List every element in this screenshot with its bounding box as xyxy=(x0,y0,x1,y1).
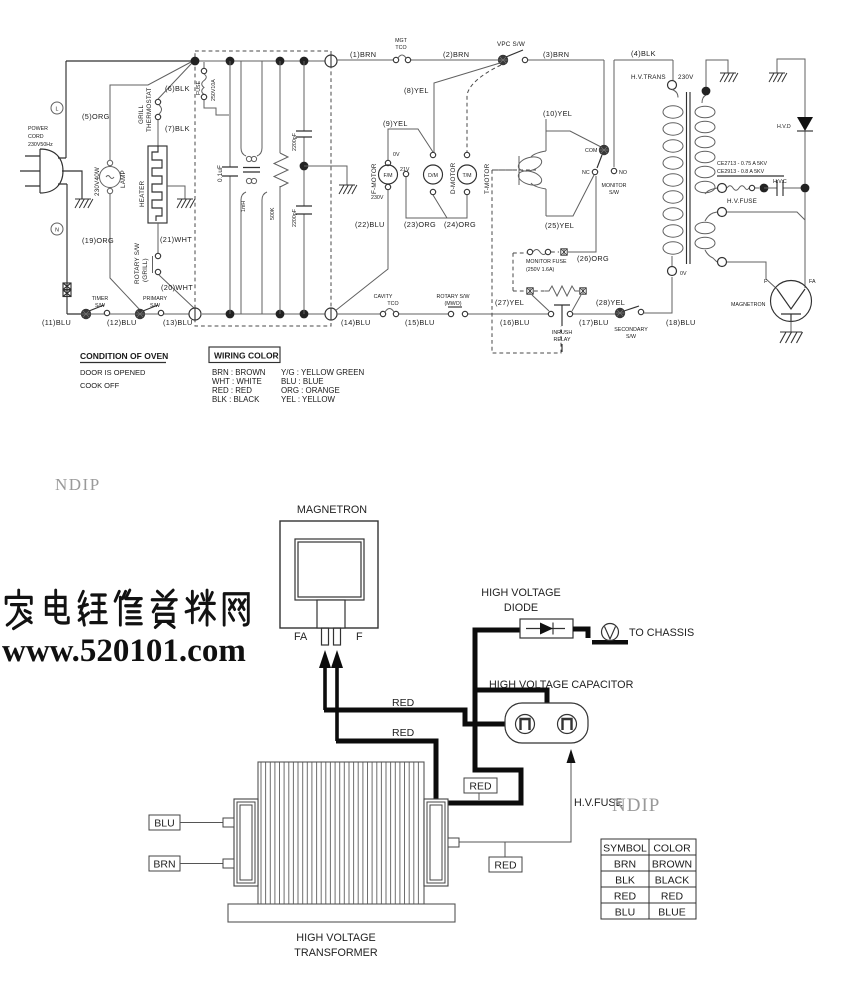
svg-text:RED: RED xyxy=(469,781,492,793)
svg-text:D/M: D/M xyxy=(428,173,438,179)
svg-text:D-MOTOR: D-MOTOR xyxy=(450,162,457,194)
svg-text:ORG : ORANGE: ORG : ORANGE xyxy=(281,386,340,395)
svg-text:LAMP: LAMP xyxy=(120,170,127,188)
svg-text:1mH: 1mH xyxy=(241,201,247,212)
svg-text:S/W: S/W xyxy=(609,190,619,196)
svg-text:(GRILL): (GRILL) xyxy=(142,258,149,282)
svg-text:ROTARY S/W: ROTARY S/W xyxy=(134,243,141,284)
svg-text:230V: 230V xyxy=(678,74,694,81)
svg-text:F/M: F/M xyxy=(383,173,392,179)
svg-text:230V40W: 230V40W xyxy=(94,167,101,196)
svg-text:TCO: TCO xyxy=(395,45,406,51)
svg-text:NC: NC xyxy=(582,170,590,176)
svg-text:MAGNETRON: MAGNETRON xyxy=(297,504,367,516)
svg-text:(28)YEL: (28)YEL xyxy=(596,298,625,307)
svg-text:H.V.TRANS: H.V.TRANS xyxy=(631,74,666,81)
svg-text:BLU: BLU xyxy=(154,818,174,830)
svg-text:TIMER: TIMER xyxy=(92,296,109,302)
svg-text:2200pF: 2200pF xyxy=(292,208,298,227)
svg-text:YEL : YELLOW: YEL : YELLOW xyxy=(281,395,335,404)
svg-text:MAGNETRON: MAGNETRON xyxy=(731,302,766,308)
svg-text:F-MOTOR: F-MOTOR xyxy=(371,163,378,194)
svg-text:THERMOSTAT: THERMOSTAT xyxy=(146,88,153,132)
svg-text:(27)YEL: (27)YEL xyxy=(495,298,524,307)
svg-text:N: N xyxy=(55,228,59,234)
svg-text:H.V.D: H.V.D xyxy=(777,124,791,130)
svg-text:Y/G : YELLOW GREEN: Y/G : YELLOW GREEN xyxy=(281,368,364,377)
svg-text:(17)BLU: (17)BLU xyxy=(579,318,609,327)
svg-text:INRUSH: INRUSH xyxy=(552,330,572,336)
svg-text:SYMBOL: SYMBOL xyxy=(603,843,647,855)
svg-text:FA: FA xyxy=(294,631,308,643)
svg-text:BRN: BRN xyxy=(153,859,175,871)
svg-text:230V50Hz: 230V50Hz xyxy=(28,142,53,148)
svg-text:(21)WHT: (21)WHT xyxy=(160,235,192,244)
svg-text:RED: RED xyxy=(392,727,415,739)
svg-text:(16)BLU: (16)BLU xyxy=(500,318,530,327)
svg-text:L: L xyxy=(56,107,59,113)
svg-text:NDIP: NDIP xyxy=(55,475,101,494)
svg-text:GRILL: GRILL xyxy=(138,105,145,124)
svg-text:0V: 0V xyxy=(393,152,400,158)
svg-text:BLACK: BLACK xyxy=(655,875,689,887)
svg-text:(2)BRN: (2)BRN xyxy=(443,50,469,59)
svg-text:(20)WHT: (20)WHT xyxy=(161,283,193,292)
svg-text:WIRING COLOR: WIRING COLOR xyxy=(214,351,279,361)
svg-text:DIODE: DIODE xyxy=(504,602,538,614)
svg-text:RED: RED xyxy=(494,860,517,872)
svg-text:NO: NO xyxy=(619,170,627,176)
svg-text:250V10A: 250V10A xyxy=(211,79,217,101)
svg-text:FA: FA xyxy=(809,279,816,285)
svg-text:0.1uF: 0.1uF xyxy=(217,165,224,182)
svg-text:CORD: CORD xyxy=(28,134,44,140)
svg-text:WHT : WHITE: WHT : WHITE xyxy=(212,377,262,386)
svg-text:MONITOR FUSE: MONITOR FUSE xyxy=(526,259,567,265)
svg-text:RED: RED xyxy=(661,891,684,903)
svg-text:BROWN: BROWN xyxy=(652,859,692,871)
svg-text:TRANSFORMER: TRANSFORMER xyxy=(294,947,378,959)
svg-text:S/W: S/W xyxy=(95,303,105,309)
svg-text:COLOR: COLOR xyxy=(653,843,691,855)
svg-text:MGT: MGT xyxy=(395,38,408,44)
svg-text:(14)BLU: (14)BLU xyxy=(341,318,371,327)
svg-text:0V: 0V xyxy=(680,271,687,277)
svg-text:DOOR IS OPENED: DOOR IS OPENED xyxy=(80,368,146,377)
svg-text:BLUE: BLUE xyxy=(658,907,685,919)
svg-text:RED: RED xyxy=(392,697,415,709)
svg-text:BLU: BLU xyxy=(615,907,635,919)
svg-text:COOK OFF: COOK OFF xyxy=(80,381,120,390)
svg-text:F: F xyxy=(356,631,363,643)
svg-text:(7)BLK: (7)BLK xyxy=(165,124,190,133)
svg-text:(6)BLK: (6)BLK xyxy=(165,84,190,93)
svg-text:POWER: POWER xyxy=(28,126,48,132)
svg-text:CONDITION OF OVEN: CONDITION OF OVEN xyxy=(80,351,168,361)
svg-text:TO CHASSIS: TO CHASSIS xyxy=(629,627,694,639)
svg-text:TCO: TCO xyxy=(387,301,398,307)
svg-text:(MWO): (MWO) xyxy=(444,301,461,307)
svg-text:HEATER: HEATER xyxy=(139,180,146,207)
svg-text:MONITOR: MONITOR xyxy=(602,183,627,189)
svg-text:(25)YEL: (25)YEL xyxy=(545,221,574,230)
svg-text:BRN: BRN xyxy=(614,859,636,871)
svg-text:HIGH VOLTAGE CAPACITOR: HIGH VOLTAGE CAPACITOR xyxy=(489,679,634,691)
svg-text:CE2713 - 0.75 A 5KV: CE2713 - 0.75 A 5KV xyxy=(717,161,768,167)
svg-text:(11)BLU: (11)BLU xyxy=(42,318,71,327)
svg-text:(22)BLU: (22)BLU xyxy=(355,220,385,229)
svg-text:(8)YEL: (8)YEL xyxy=(404,86,429,95)
svg-text:T/M: T/M xyxy=(462,173,471,179)
svg-text:(24)ORG: (24)ORG xyxy=(444,220,476,229)
svg-text:BLU : BLUE: BLU : BLUE xyxy=(281,377,324,386)
svg-text:ROTARY S/W: ROTARY S/W xyxy=(437,294,470,300)
svg-text:(12)BLU: (12)BLU xyxy=(107,318,137,327)
svg-text:SECONDARY: SECONDARY xyxy=(614,327,648,333)
svg-text:S/W: S/W xyxy=(150,303,160,309)
svg-text:HIGH VOLTAGE: HIGH VOLTAGE xyxy=(481,587,560,599)
svg-text:500K: 500K xyxy=(270,207,276,220)
svg-text:S/W: S/W xyxy=(626,334,636,340)
svg-text:(18)BLU: (18)BLU xyxy=(666,318,696,327)
svg-text:(3)BRN: (3)BRN xyxy=(543,50,569,59)
svg-text:PRIMARY: PRIMARY xyxy=(143,296,168,302)
svg-text:(15)BLU: (15)BLU xyxy=(405,318,435,327)
svg-text:2200pF: 2200pF xyxy=(292,132,298,151)
svg-text:H.V.C: H.V.C xyxy=(773,179,787,185)
svg-text:COM: COM xyxy=(585,148,597,154)
svg-text:(250V 1.6A): (250V 1.6A) xyxy=(526,267,555,273)
svg-text:21V: 21V xyxy=(400,167,410,173)
svg-text:T-MOTOR: T-MOTOR xyxy=(484,163,491,194)
svg-text:230V: 230V xyxy=(371,195,384,201)
svg-text:CAVITY: CAVITY xyxy=(374,294,393,300)
svg-text:RED: RED xyxy=(614,891,637,903)
svg-text:HIGH VOLTAGE: HIGH VOLTAGE xyxy=(296,932,375,944)
svg-text:CE2913 - 0.8 A 5KV: CE2913 - 0.8 A 5KV xyxy=(717,169,765,175)
svg-text:(19)ORG: (19)ORG xyxy=(82,236,114,245)
svg-text:(4)BLK: (4)BLK xyxy=(631,49,656,58)
svg-text:FUSE: FUSE xyxy=(196,80,202,95)
svg-text:(23)ORG: (23)ORG xyxy=(404,220,436,229)
svg-text:(26)ORG: (26)ORG xyxy=(577,254,609,263)
svg-text:BLK : BLACK: BLK : BLACK xyxy=(212,395,260,404)
svg-text:NDIP: NDIP xyxy=(612,795,660,816)
svg-text:(9)YEL: (9)YEL xyxy=(383,119,408,128)
svg-text:(1)BRN: (1)BRN xyxy=(350,50,376,59)
svg-text:(13)BLU: (13)BLU xyxy=(163,318,193,327)
svg-text:(5)ORG: (5)ORG xyxy=(82,112,110,121)
svg-text:VPC S/W: VPC S/W xyxy=(497,41,525,48)
svg-text:H.V.FUSE: H.V.FUSE xyxy=(727,198,757,205)
svg-text:(10)YEL: (10)YEL xyxy=(543,109,572,118)
svg-text:BLK: BLK xyxy=(615,875,635,887)
svg-text:www.520101.com: www.520101.com xyxy=(2,633,246,669)
svg-text:BRN : BROWN: BRN : BROWN xyxy=(212,368,266,377)
svg-text:RED : RED: RED : RED xyxy=(212,386,252,395)
svg-text:RELAY: RELAY xyxy=(554,337,571,343)
